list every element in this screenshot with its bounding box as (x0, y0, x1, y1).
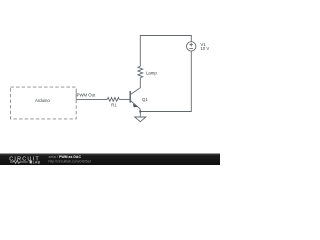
svg-text:Q1: Q1 (142, 97, 148, 102)
svg-text:http://circuitlab.com/c/6r5a2: http://circuitlab.com/c/6r5a2 (48, 159, 91, 163)
svg-text:R1: R1 (111, 102, 117, 107)
svg-text:Arduino: Arduino (35, 98, 50, 103)
svg-text:PWM Out: PWM Out (77, 93, 96, 98)
svg-text:LAB: LAB (33, 161, 41, 165)
svg-text:zeta / PWM as DAC: zeta / PWM as DAC (48, 154, 81, 159)
svg-text:Lamp: Lamp (146, 71, 157, 76)
svg-text:10 V: 10 V (200, 46, 209, 51)
